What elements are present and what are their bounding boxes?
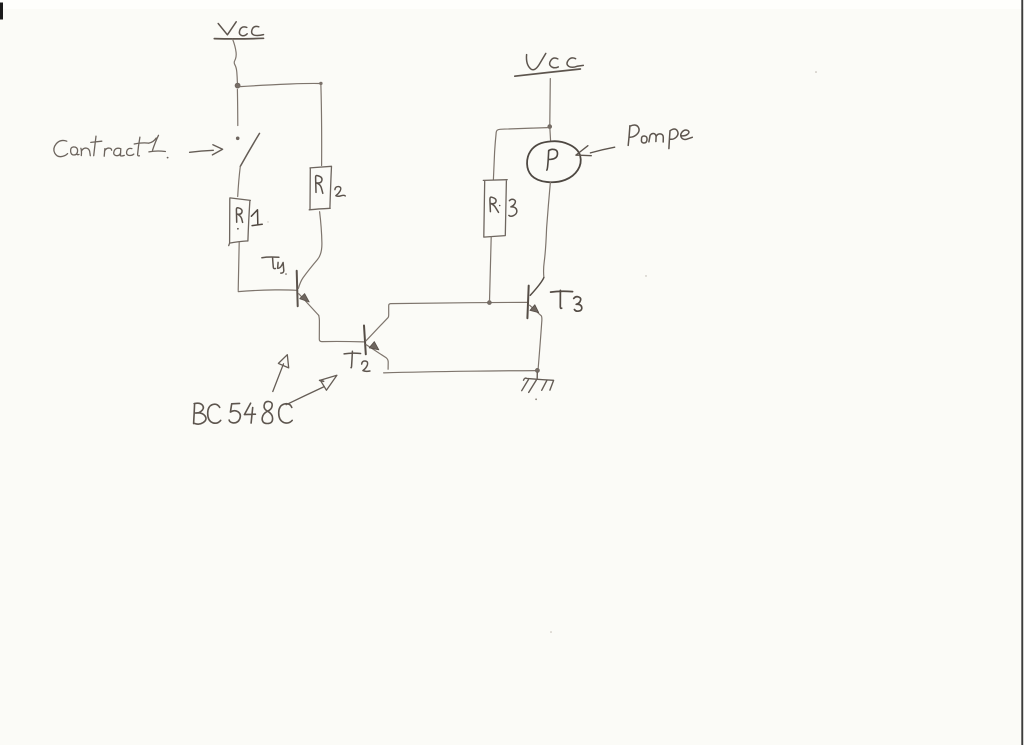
R1 digit 1 (251, 210, 262, 226)
power label Ucc (right) (515, 53, 584, 76)
wire pump bottom to T3 collector (544, 182, 551, 278)
transistor T2 collector wire up to node line (366, 302, 528, 341)
arrow 1 from BC548C up (273, 355, 289, 392)
arrow pointing to switch (190, 145, 223, 155)
node dot at R2 branch corner (319, 82, 322, 85)
resistor R1 box (229, 198, 263, 246)
pump P top lead from node C (549, 129, 552, 141)
R3 digit 3 (509, 199, 517, 216)
wire T2 emitter to ground node (384, 371, 536, 373)
R1 letter R (236, 208, 242, 223)
ground (522, 372, 554, 400)
wire R3 bottom to node B (490, 237, 492, 301)
label T2 (344, 351, 370, 371)
wire Ucc to node C (549, 79, 552, 124)
label BC548C (194, 401, 293, 424)
node A junction dot (235, 83, 240, 88)
wire R1 bottom to T1 base wire (238, 242, 239, 290)
node C junction dot (548, 125, 552, 129)
transistor T1 bar (297, 271, 298, 306)
R3 letter R (490, 197, 499, 212)
transistor T2 emitter with arrow (366, 345, 388, 370)
wire switch blade to R1 top (238, 166, 241, 196)
wire node A to R2 branch (240, 83, 319, 86)
wire node C left and down to R3 top (493, 128, 547, 180)
wire R2 top lead (320, 85, 323, 165)
label T3 (551, 290, 582, 311)
resistor R2 box (309, 166, 345, 210)
wire R2 bottom to T1 collector (298, 212, 322, 289)
scan artifact: top-left black mark (0, 3, 3, 20)
R2 letter R (316, 176, 323, 194)
arrow Pompe to pump (576, 146, 615, 156)
power label Vcc (left) (214, 22, 263, 39)
transistor T3 emitter with arrow (530, 305, 542, 368)
wire T1 emitter to T2 base (319, 315, 364, 342)
scan artifact: right edge dark line (1021, 0, 1023, 745)
resistor R3 box (483, 180, 517, 237)
transistor T2 bar (364, 326, 366, 355)
switch Contact1 blade (240, 133, 259, 166)
label Contact 1 (54, 135, 169, 158)
transistor T3 bar (527, 286, 528, 319)
wire Vcc-left to node A (233, 39, 238, 83)
pump P circle (527, 141, 581, 182)
R2 digit 2 (335, 187, 345, 197)
faint specks (815, 71, 817, 73)
transistor T3 collector (530, 278, 544, 296)
wire to T1 base (238, 290, 296, 292)
switch fixed contact dot (236, 137, 240, 141)
transistor T1 emitter with arrow (299, 294, 319, 316)
label Pompe (628, 125, 692, 149)
wire node A down to switch fixed contact (236, 90, 238, 126)
arrow 2 from BC548C up-right (286, 375, 337, 404)
pump letter P (547, 149, 558, 170)
node D ground junction dot (535, 368, 539, 372)
label T1 (262, 257, 287, 275)
node B junction dot (488, 301, 492, 305)
